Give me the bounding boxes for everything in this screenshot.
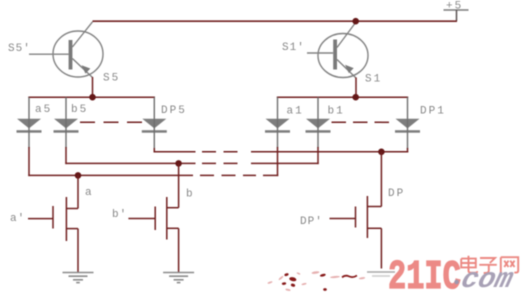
svg-text:DP1: DP1 — [420, 106, 446, 118]
junction DP bus — [378, 149, 385, 156]
wire S1 emitter to right diode group — [355, 78, 357, 98]
power +5 supply symbol — [444, 1, 469, 22]
wire DP5 cathode drop — [153, 148, 155, 153]
watermark chinese 电子网 — [461, 256, 518, 274]
ground (MOSFET DP source) — [367, 272, 395, 276]
wire DP bus to MOSFET DP drain — [380, 152, 382, 207]
wire DP5 anode stub — [153, 97, 155, 119]
svg-text:S1': S1' — [282, 42, 305, 54]
transistor Q-a (n-channel MOSFET a) — [28, 197, 78, 272]
svg-text:b: b — [186, 189, 195, 201]
wire a5 anode stub — [28, 97, 30, 119]
子 — [479, 258, 497, 273]
wire b5 anode stub — [65, 97, 67, 119]
wire net DP bus — [154, 151, 409, 153]
junction a bus — [75, 172, 82, 179]
svg-text:a1: a1 — [287, 106, 304, 118]
svg-text:a': a' — [10, 213, 25, 225]
svg-text:S1: S1 — [365, 74, 382, 86]
diode b5 — [54, 119, 79, 148]
diode a5 — [17, 119, 42, 148]
junction left group top — [89, 94, 96, 101]
svg-text:DP5: DP5 — [161, 105, 187, 117]
svg-text:S5': S5' — [8, 43, 31, 55]
svg-text:DP: DP — [388, 188, 405, 200]
watermark red smudges — [282, 273, 358, 291]
ground (MOSFET a source) — [63, 273, 94, 283]
transistor Q-DP (n-channel MOSFET DP) — [330, 196, 382, 269]
svg-text:b1: b1 — [328, 106, 345, 118]
svg-text:DP': DP' — [300, 216, 323, 228]
svg-text:a: a — [85, 187, 94, 199]
diode b1 — [306, 119, 331, 148]
wire b bus to MOSFET b drain — [178, 163, 180, 207]
wire DP1 cathode drop — [407, 148, 409, 153]
transistor S1 (PNP) — [307, 22, 368, 78]
wire dashed segment row left — [80, 121, 142, 123]
transistor Q-b (n-channel MOSFET b) — [128, 197, 178, 272]
diode DP5 — [142, 119, 167, 149]
transistor S5 (PNP) — [29, 22, 103, 78]
wire right group anode bus — [277, 96, 408, 98]
svg-text:b': b' — [112, 209, 127, 221]
svg-text:S5: S5 — [103, 73, 120, 85]
svg-text:a5: a5 — [35, 104, 52, 116]
电 — [461, 256, 477, 273]
wire a bus to MOSFET a drain — [77, 175, 79, 208]
wire top +5 rail — [93, 20, 458, 22]
wire dashed segment row right — [332, 121, 391, 123]
wire net a bus — [28, 174, 278, 176]
wire a5 cathode drop — [28, 147, 30, 176]
svg-text:b5: b5 — [71, 104, 88, 116]
wire a1 anode stub — [277, 97, 279, 119]
wire a1 cathode drop — [277, 147, 279, 176]
wire left group anode bus — [28, 96, 155, 98]
网 — [501, 257, 518, 274]
diode DP1 — [395, 119, 420, 149]
junction on +5 rail — [352, 18, 359, 25]
wire b1 anode stub — [317, 97, 319, 119]
wire net b bus — [65, 162, 318, 164]
wire b1 cathode drop — [317, 147, 319, 164]
ground (MOSFET b source) — [163, 273, 194, 283]
wire S5 emitter to left diode group — [92, 77, 94, 97]
junction right group top — [352, 94, 359, 101]
svg-text:21IC: 21IC — [388, 254, 461, 300]
diode a1 — [265, 119, 290, 148]
wire b5 cathode drop — [65, 147, 67, 164]
junction b bus — [175, 160, 182, 167]
wire DP1 anode stub — [407, 97, 409, 119]
svg-text:com: com — [458, 263, 516, 295]
watermark 21IC logo — [388, 254, 461, 300]
